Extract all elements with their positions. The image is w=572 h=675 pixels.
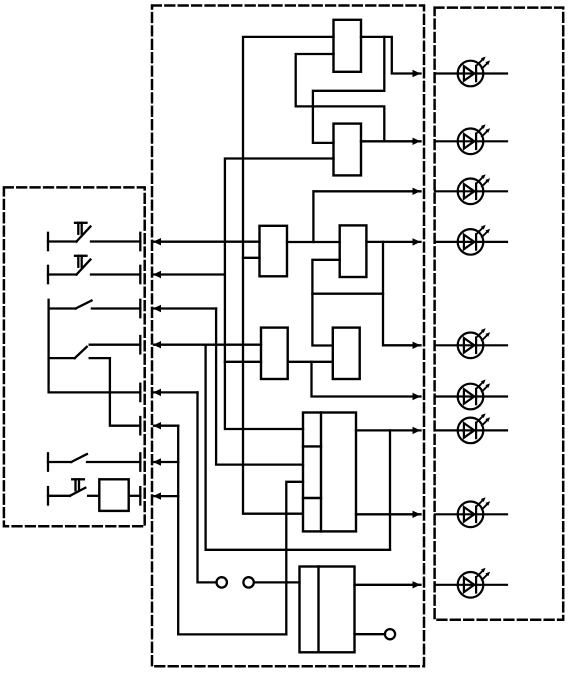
wire SA4 throw2 down to lower row bbox=[110, 358, 140, 426]
wire DD1.1 output to HL1 bbox=[361, 37, 421, 74]
arrowhead input 1 bbox=[153, 238, 161, 245]
input arrow wire 6 bbox=[154, 425, 178, 427]
arrowhead to HL2 bbox=[413, 138, 421, 145]
input arrow wire 7 bbox=[154, 461, 178, 463]
wire x286 down to bottom junction bbox=[285, 514, 287, 635]
arrowhead to HL3 bbox=[413, 188, 421, 195]
left dashed box (switch unit) bbox=[4, 187, 145, 526]
wire DD2.2 feedback bbox=[383, 242, 421, 345]
LED HL9 bbox=[435, 568, 507, 598]
LED HL3 bbox=[435, 174, 507, 204]
arrowhead input 3 bbox=[153, 305, 161, 312]
wire branch to DD3.2 input bbox=[312, 294, 332, 346]
LED HL2 bbox=[435, 124, 507, 154]
arrowhead to HL8 bbox=[413, 511, 421, 518]
switch SB1 (pushbutton) bbox=[48, 223, 140, 250]
switch SB6 (pushbutton) bbox=[48, 479, 99, 504]
logic block DD2.1 bbox=[260, 226, 288, 276]
logic block DD3.1 bbox=[261, 328, 288, 379]
arrowhead input 5 bbox=[153, 389, 161, 396]
arrowhead input 7 bbox=[153, 458, 161, 465]
contact circle K2 bbox=[243, 577, 253, 587]
wire vertical x216 to register input 2 bbox=[216, 309, 303, 465]
terminal circle XT bbox=[385, 629, 395, 639]
wire vertical x225 trigger row feed bbox=[225, 159, 334, 430]
arrowhead input 4 bbox=[153, 341, 161, 348]
arrowhead to HL5 bbox=[413, 342, 421, 349]
wire DD3.1 output to DD3.2 bbox=[288, 361, 333, 363]
LED HL4 bbox=[435, 225, 507, 255]
LED HL7 bbox=[435, 413, 507, 443]
wire DD4 output to HL7 bbox=[356, 429, 421, 431]
LED HL5 bbox=[435, 328, 507, 358]
wire long vertical x243 bbox=[243, 37, 334, 514]
wire DD5 output to HL9 bbox=[355, 584, 421, 586]
right dashed box (indicator unit) bbox=[435, 8, 564, 620]
contact circle K1 bbox=[217, 577, 227, 587]
arrowhead input 8 bbox=[153, 492, 161, 499]
wire vertical x205 bbox=[206, 345, 390, 550]
wire branch to HL6 bbox=[312, 362, 421, 397]
wire DD1.2 output to HL2 bbox=[361, 140, 421, 142]
input arrow wire 3 bbox=[154, 307, 216, 309]
input arrow wire 8 bbox=[154, 495, 178, 497]
LED HL6 bbox=[435, 380, 507, 410]
arrowhead input 2 bbox=[153, 271, 161, 278]
arrowhead input 6 bbox=[153, 422, 161, 429]
wire DD4 output to HL8 bbox=[356, 513, 421, 515]
wire vertical x178 down to bottom row bbox=[178, 426, 286, 635]
switch SB2 (pushbutton) bbox=[48, 256, 140, 283]
wire branch to E input2 bbox=[225, 361, 261, 363]
wire riser to register input 3 bbox=[286, 482, 303, 514]
arrowhead to HL1 bbox=[413, 70, 421, 77]
switch SA4 (changeover) bbox=[49, 336, 141, 358]
wire DD2.1 output to DD2.2 bbox=[287, 241, 340, 243]
delay block A1 in left box bbox=[99, 479, 128, 511]
wire A1 output bbox=[129, 495, 141, 497]
wire to HL3 bbox=[313, 191, 420, 242]
input arrow wire 2 bbox=[154, 273, 225, 275]
logic block DD2.2 bbox=[340, 225, 367, 277]
wire contact to output block bbox=[254, 581, 300, 583]
output block DD5 bbox=[300, 567, 355, 653]
switch SB5 bbox=[48, 453, 140, 470]
arrowhead to HL9 bbox=[413, 581, 421, 588]
input arrow wire 1 bbox=[154, 241, 260, 243]
register block DD4 bbox=[303, 413, 356, 532]
trigger block DD1.2 bbox=[334, 124, 362, 176]
wire x391 from HL7 row down bbox=[389, 430, 391, 549]
input arrow wire 4 bbox=[154, 344, 261, 346]
arrowhead to HL6 bbox=[413, 393, 421, 400]
middle dashed box (logic unit) bbox=[152, 6, 424, 667]
common bus wire of SB3/SA4 bbox=[49, 300, 141, 393]
wire DD1.1 output branch to DD1.2 input bbox=[313, 37, 384, 143]
wire vertical x197 to contact row bbox=[198, 392, 217, 582]
arrowhead to HL7 bbox=[413, 427, 421, 434]
wire DD5 output terminal bbox=[355, 633, 385, 635]
wire branch to C input2 bbox=[243, 257, 260, 259]
switch SB3 bbox=[49, 300, 141, 317]
wire DD1.1 input2 feedback bbox=[296, 54, 385, 141]
trigger block DD1.1 bbox=[334, 20, 362, 72]
LED HL8 bbox=[435, 497, 507, 527]
arrowhead to HL4 bbox=[413, 238, 421, 245]
input arrowheads at middle box edge bbox=[153, 70, 421, 589]
logic block DD3.2 bbox=[333, 328, 360, 379]
LED HL1 bbox=[435, 57, 507, 87]
input arrow wire 5 bbox=[154, 391, 198, 393]
wire feedback cross branch bbox=[312, 260, 383, 294]
wire DD2.2 output to HL4 bbox=[366, 241, 420, 243]
